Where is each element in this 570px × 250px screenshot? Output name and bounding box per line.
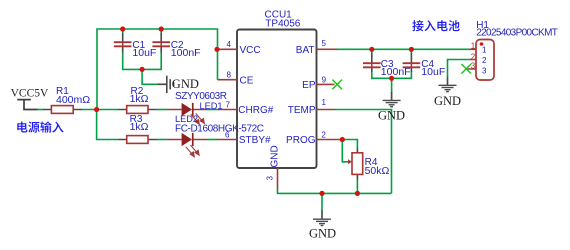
wire bottom gnd rail	[278, 188, 392, 193]
wire cap rail to GND2	[391, 78, 393, 93]
svg-text:1: 1	[471, 41, 476, 50]
resistor R3	[127, 136, 148, 144]
svg-text:9: 9	[322, 75, 327, 84]
wire LED1-pin7	[207, 109, 219, 111]
resistor R2 pins	[118, 109, 156, 111]
wire R3-LED2	[157, 139, 167, 141]
wire R4 bottom to rail	[356, 179, 358, 193]
pin 2 PROG stub	[317, 139, 343, 141]
svg-text:EP: EP	[302, 80, 316, 91]
wire C4 top lead green	[410, 49, 412, 53]
wire C1 C2 bottom rail	[123, 52, 162, 69]
svg-text:LED1: LED1	[200, 101, 223, 111]
wire connector pin2 to GND3	[448, 60, 471, 79]
svg-text:1kΩ: 1kΩ	[130, 121, 149, 133]
LED2 diode symbol	[182, 133, 194, 146]
IC U1 TP4056 body	[237, 30, 317, 169]
resistor R1	[51, 106, 73, 114]
LED2 emission arrows	[186, 145, 199, 157]
svg-text:22025403P00CKMT: 22025403P00CKMT	[476, 28, 558, 39]
svg-text:4: 4	[227, 40, 232, 49]
svg-text:1: 1	[322, 98, 327, 107]
ground symbol GND2 below C3 C4	[383, 92, 401, 107]
wire cap rail to GND1	[142, 69, 158, 84]
no-connect X on EP pin9	[332, 80, 342, 90]
capacitor C4 plates	[403, 63, 421, 67]
resistor R2	[127, 106, 148, 114]
svg-text:1kΩ: 1kΩ	[130, 93, 149, 105]
LED2 leads	[167, 139, 207, 141]
pin 6 STBY stub	[218, 139, 237, 141]
capacitor C1 leads	[122, 33, 124, 53]
ground symbol GND1 sideways near C1 C2	[158, 76, 174, 93]
capacitor C2 leads	[160, 33, 162, 53]
wire BAT line pin5 to connector	[336, 48, 471, 50]
capacitor C1 center stub	[122, 42, 124, 46]
resistor R4 wiper arrow	[348, 159, 352, 164]
pin 3 GND stub	[277, 168, 279, 189]
svg-text:TP4056: TP4056	[265, 19, 300, 30]
wire C2 top lead green	[160, 29, 162, 34]
svg-text:VCC: VCC	[240, 45, 261, 56]
capacitor C3 leads	[371, 53, 373, 72]
wire rail to GND4	[321, 193, 323, 211]
wire TEMP pin1 to gnd rail	[334, 110, 392, 194]
resistor R1 pins	[43, 109, 82, 111]
svg-text:CE: CE	[240, 75, 254, 86]
svg-text:2: 2	[321, 130, 326, 139]
capacitor C4 leads	[410, 53, 412, 72]
svg-text:100nF: 100nF	[171, 47, 201, 59]
pin 8 CE stub	[218, 79, 238, 81]
wire C3 C4 bottom rail	[372, 72, 412, 79]
svg-text:VCC5V: VCC5V	[11, 87, 49, 99]
svg-text:LED2: LED2	[175, 114, 198, 124]
wire main VCC5V line segment port-R1	[37, 109, 44, 111]
svg-text:50kΩ: 50kΩ	[365, 165, 390, 177]
svg-text:5: 5	[322, 39, 327, 48]
svg-text:GND: GND	[172, 77, 199, 91]
svg-text:FC-D1608HGK-572C: FC-D1608HGK-572C	[175, 124, 264, 135]
wire LED2-pin6	[207, 139, 219, 141]
svg-text:GND: GND	[309, 227, 336, 241]
svg-text:400mΩ: 400mΩ	[56, 94, 90, 106]
svg-text:3: 3	[266, 176, 275, 181]
svg-text:3: 3	[482, 67, 487, 76]
ground symbol GND4 bottom center	[313, 211, 331, 226]
wire R1-junction-R2	[82, 109, 119, 111]
port VCC5V symbol	[17, 100, 37, 110]
capacitor C2 center stub	[160, 42, 162, 46]
LED1 emission arrows	[191, 113, 205, 124]
connector H1 pin1 marker dot	[480, 42, 484, 46]
wire PROG wiper branch	[342, 140, 348, 162]
svg-text:2: 2	[471, 52, 476, 61]
connector H1 pin stubs	[466, 49, 476, 69]
svg-text:8: 8	[227, 71, 232, 80]
svg-text:GND: GND	[434, 94, 461, 108]
wire top rail VCC	[97, 29, 218, 110]
wire R2-LED1	[157, 109, 167, 111]
capacitor C1 plates	[114, 42, 132, 46]
resistor R4	[352, 153, 363, 175]
pin 1 TEMP stub	[317, 109, 335, 111]
capacitor C2 plates	[152, 42, 170, 46]
LED1 leads	[167, 109, 207, 111]
svg-text:PROG: PROG	[286, 135, 316, 146]
pin 7 CHRG stub	[218, 109, 237, 111]
wire C3 top lead green	[371, 49, 373, 53]
svg-text:10uF: 10uF	[421, 66, 445, 78]
svg-text:GND: GND	[378, 109, 405, 123]
annotation jie-ru-dian-chi	[412, 20, 423, 31]
svg-text:STBY#: STBY#	[239, 135, 271, 146]
LED1 diode symbol	[182, 103, 194, 116]
svg-text:6: 6	[225, 130, 230, 139]
connector H1 body	[476, 40, 494, 81]
capacitor C4 center stub	[410, 63, 412, 67]
svg-text:100nF: 100nF	[381, 66, 411, 78]
wire PROG to R4 top	[342, 140, 357, 150]
svg-text:3: 3	[471, 62, 476, 71]
wire junction down to R3 line	[97, 110, 119, 140]
capacitor C3 plates	[363, 63, 381, 67]
resistor R4 leads	[356, 149, 358, 180]
annotation dian-yuan-shu-ru	[17, 121, 27, 132]
svg-text:BAT: BAT	[296, 45, 315, 56]
svg-text:CHRG#: CHRG#	[238, 105, 273, 116]
svg-text:7: 7	[226, 101, 231, 110]
no-connect X on H1 pin3	[461, 64, 471, 74]
pin 4 VCC stub	[217, 48, 237, 50]
pin 5 BAT stub	[317, 48, 337, 50]
svg-text:1: 1	[482, 46, 487, 55]
resistor R3 pins	[118, 139, 156, 141]
pin 9 EP stub	[317, 83, 335, 85]
svg-text:TEMP: TEMP	[288, 105, 316, 116]
ground symbol GND3 below connector H1	[439, 78, 457, 92]
svg-text:GND: GND	[270, 145, 281, 167]
capacitor C3 center stub	[371, 63, 373, 67]
svg-text:10uF: 10uF	[132, 47, 156, 59]
wire C1 top lead green	[122, 29, 124, 34]
svg-text:2: 2	[482, 56, 487, 65]
